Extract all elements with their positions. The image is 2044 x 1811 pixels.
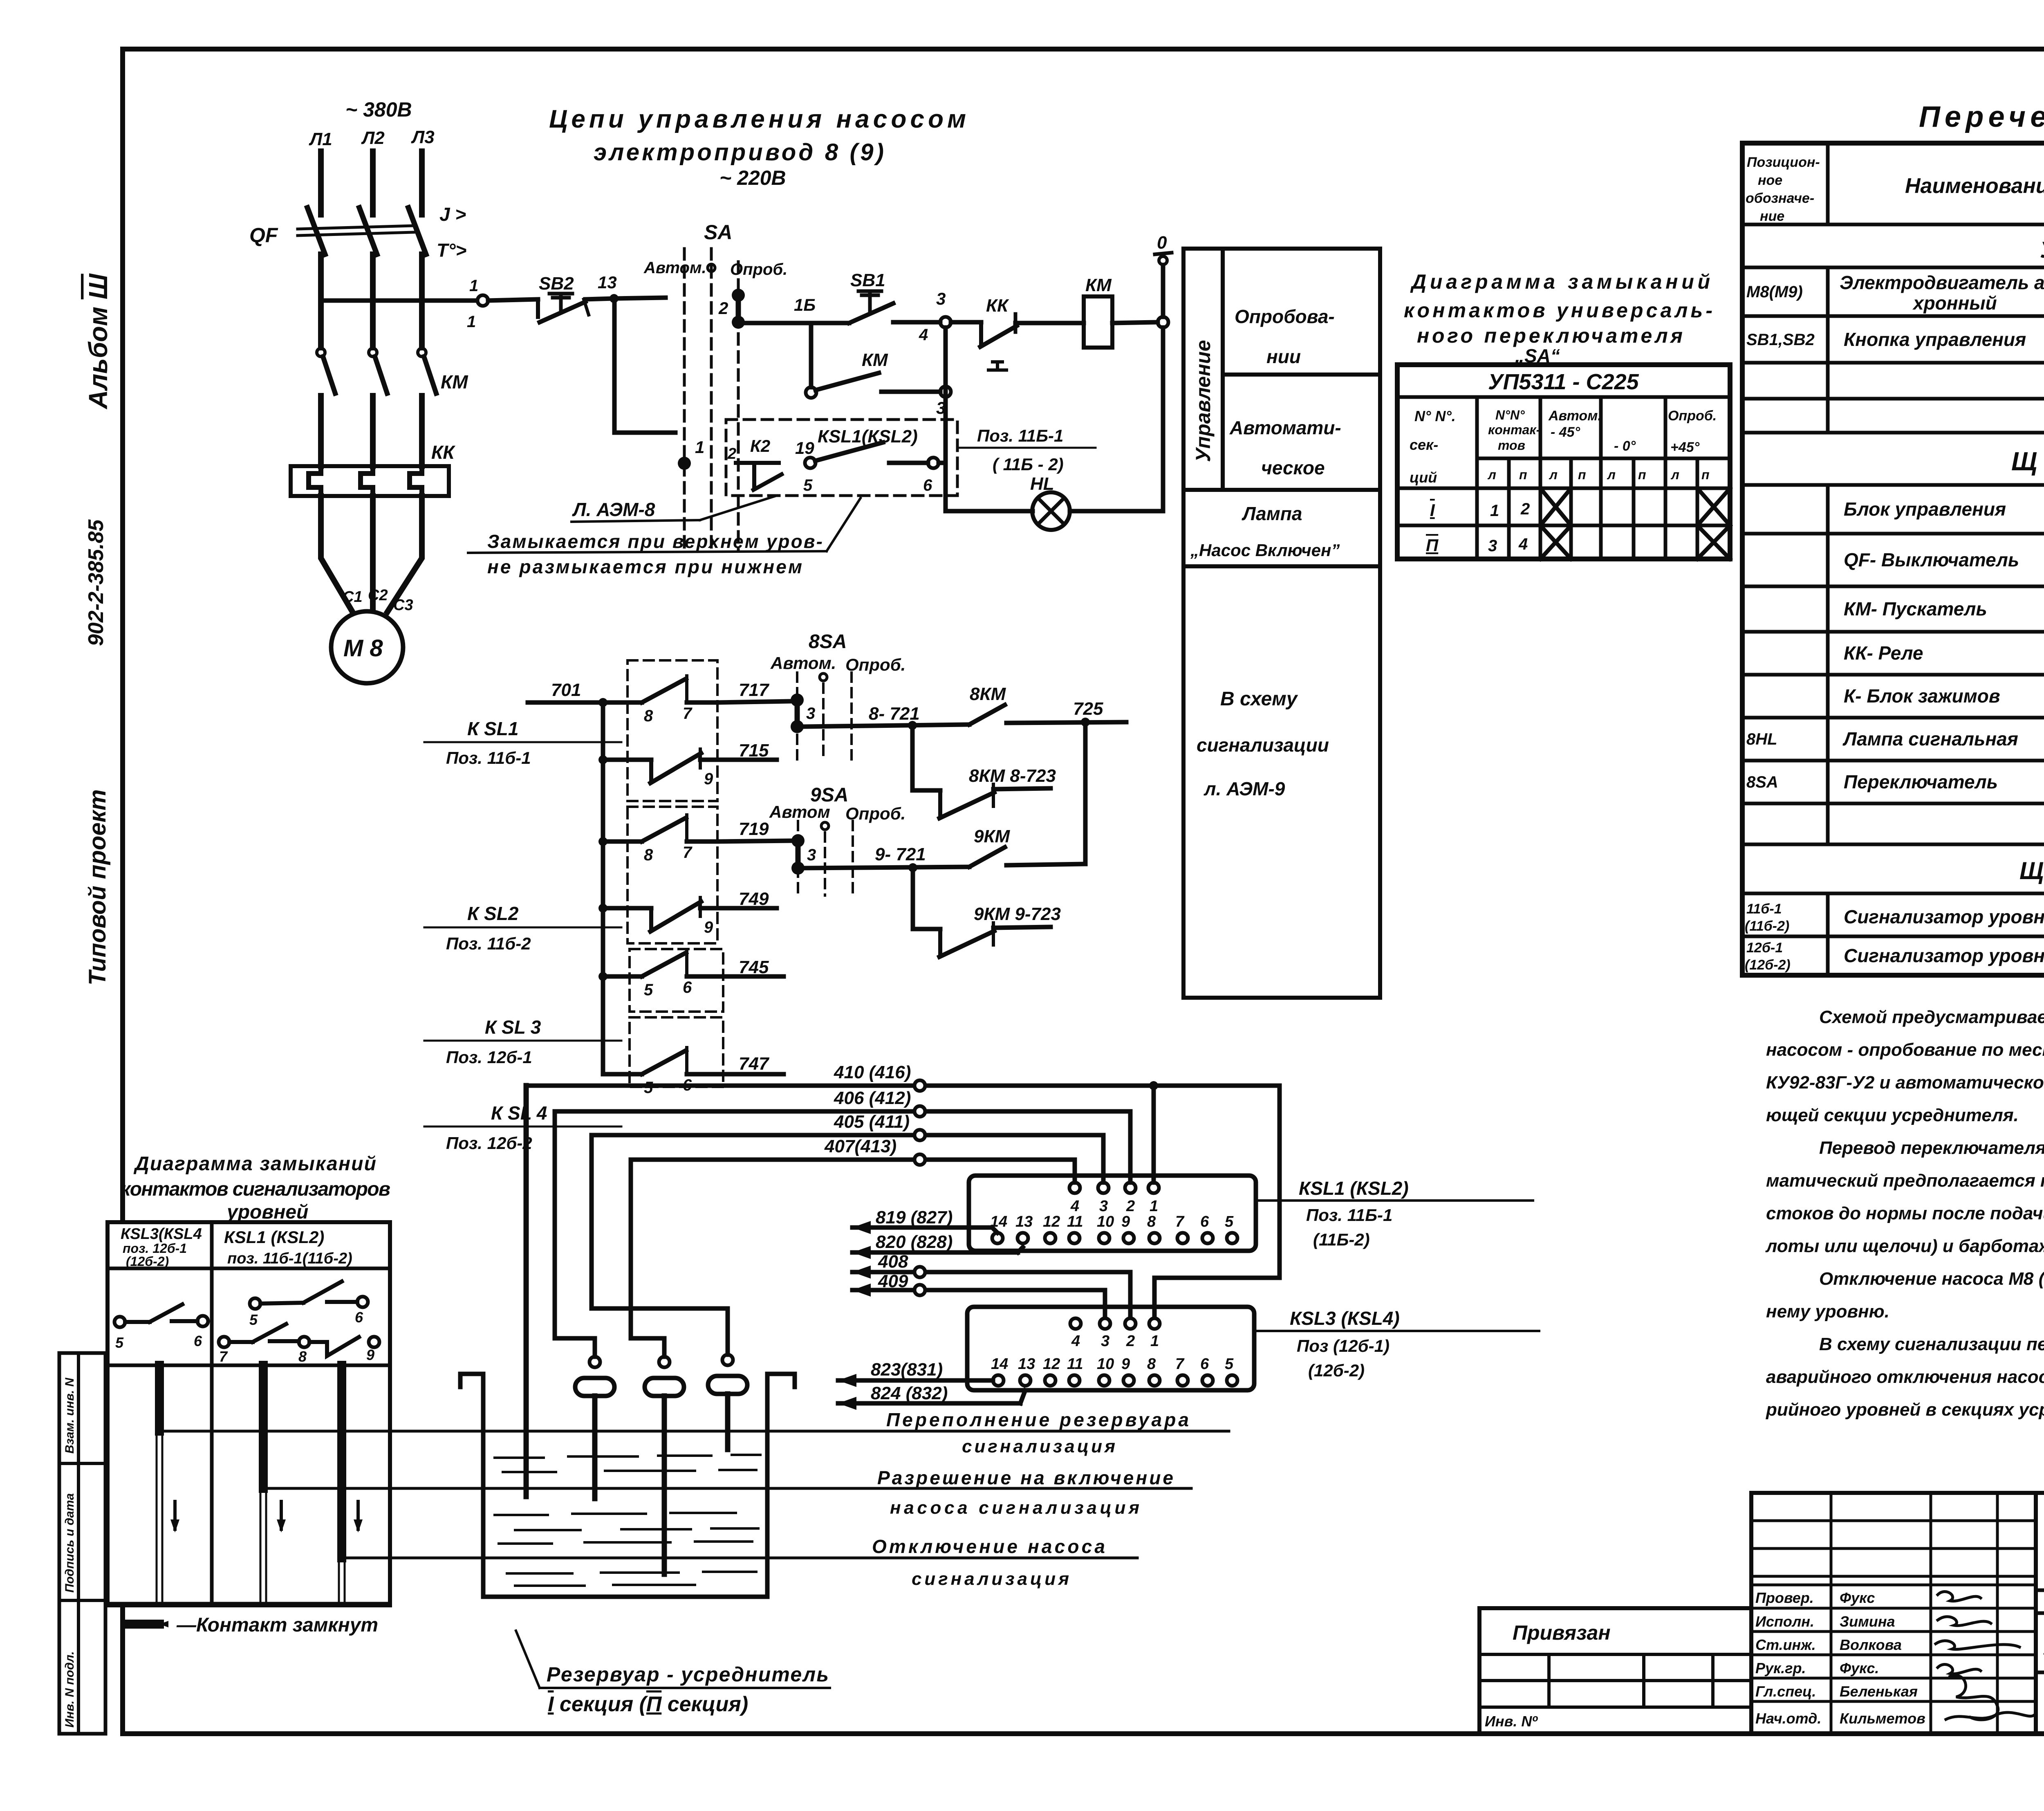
signature squiggles xyxy=(1936,1591,2034,1719)
svg-text:Щит КИП: Щит КИП xyxy=(2019,857,2044,884)
svg-text:КМ: КМ xyxy=(441,371,468,393)
svg-text:Цепи управления насосом: Цепи управления насосом xyxy=(549,105,966,133)
svg-text:9: 9 xyxy=(366,1346,374,1363)
svg-text:КУ92-83Г-У2 и автоматическое: КУ92-83Г-У2 и автоматическое по уровню в… xyxy=(1766,1073,2044,1093)
SA position labels xyxy=(643,259,787,278)
svg-text:К- Блок зажимов: К- Блок зажимов xyxy=(1844,685,2000,707)
net 408 wire xyxy=(852,1252,1130,1317)
wire 719 to 9SA xyxy=(717,841,792,842)
wire 745 stub xyxy=(723,974,784,979)
contactor coil KM xyxy=(1084,296,1112,348)
chart arrow 3 xyxy=(354,1501,363,1533)
svg-text:717: 717 xyxy=(739,680,770,700)
svg-text:9: 9 xyxy=(1121,1213,1130,1230)
svg-text:11б-1: 11б-1 xyxy=(1746,901,1782,917)
svg-text:8SА: 8SА xyxy=(1746,773,1778,791)
wire node3 vertical down to lamp rail xyxy=(944,328,948,511)
level 1 label: Переполнение резервуара / сигнализация xyxy=(886,1409,1189,1456)
symbol contact 7-8-9 KSL1 xyxy=(219,1324,379,1365)
junction dot 745 tap xyxy=(598,972,607,981)
svg-text:КК: КК xyxy=(986,296,1009,316)
svg-text:N°N°: N°N° xyxy=(1495,408,1525,422)
svg-text:п: п xyxy=(1519,467,1527,482)
svg-text:12: 12 xyxy=(1043,1355,1060,1373)
svg-text:М8(М9): М8(М9) xyxy=(1746,283,1803,301)
svg-text:Поз. 11Б-1: Поз. 11Б-1 xyxy=(977,426,1063,445)
svg-text:(12б-2): (12б-2) xyxy=(1745,957,1791,973)
list-of-elements table grid xyxy=(1742,143,2044,975)
svg-text:Подпись и дата: Подпись и дата xyxy=(63,1493,76,1593)
svg-text:408: 408 xyxy=(878,1252,908,1272)
svg-text:6: 6 xyxy=(355,1309,363,1326)
svg-text:4: 4 xyxy=(1071,1333,1080,1350)
svg-text:Блок управления: Блок управления xyxy=(1844,498,2006,520)
svg-text:410 (416): 410 (416) xyxy=(834,1062,911,1082)
svg-text:9- 721: 9- 721 xyxy=(875,844,926,864)
wire 715 stub xyxy=(717,758,777,762)
node 0 circle xyxy=(1158,317,1168,328)
KSL bus vertical xyxy=(601,702,605,1074)
9SA dashed line 2 xyxy=(824,833,826,895)
wire 1B to SB1 xyxy=(811,321,849,325)
svg-text:10: 10 xyxy=(1097,1355,1114,1373)
net 407 wire xyxy=(631,1136,1075,1183)
svg-text:13: 13 xyxy=(1015,1213,1033,1230)
net 819(827) wire with arrow xyxy=(852,1207,997,1234)
svg-text:3: 3 xyxy=(936,289,946,308)
svg-text:9: 9 xyxy=(704,918,713,936)
level 2 label: Разрешение на включение / насоса сигнализация xyxy=(877,1467,1173,1518)
SA table л/п sub-headers xyxy=(1487,467,1710,482)
svg-text:+45°: +45° xyxy=(1670,440,1700,455)
svg-text:матический предполагается по: матический предполагается после заполнен… xyxy=(1766,1171,2044,1191)
К блок зажимов row xyxy=(1844,680,2044,715)
svg-text:КSL1(КSL2): КSL1(КSL2) xyxy=(818,426,918,447)
svg-text:Кильметов: Кильметов xyxy=(1840,1710,1925,1727)
svg-text:НL: НL xyxy=(1030,474,1054,494)
label KSL3 Poz.12b-1 xyxy=(446,1017,541,1067)
wire SB2 to node 13 xyxy=(585,298,613,299)
КМ пускатель row xyxy=(1844,593,2044,628)
svg-text:8SА: 8SА xyxy=(809,631,847,653)
contact KM auxiliary (NO self-hold) xyxy=(806,350,888,398)
contact KSL3 5-6 (net 745) xyxy=(603,950,723,999)
wire node 0 up to terminal xyxy=(1161,265,1165,317)
svg-text:К2: К2 xyxy=(750,436,770,456)
signature rows text xyxy=(1755,1589,1925,1727)
control tap wire from phase 1 xyxy=(321,298,477,303)
svg-text:Фукс.: Фукс. xyxy=(1840,1660,1879,1676)
relay contact KK (NC) xyxy=(980,296,1017,370)
svg-text:Управление: Управление xyxy=(1192,340,1215,462)
svg-text:Инв. Nº: Инв. Nº xyxy=(1485,1713,1538,1730)
net 701 label xyxy=(551,680,581,700)
svg-text:701: 701 xyxy=(551,680,581,700)
svg-text:Л2: Л2 xyxy=(361,128,385,148)
svg-text:725: 725 xyxy=(1073,699,1103,719)
svg-text:л: л xyxy=(1607,467,1616,482)
svg-text:- 0°: - 0° xyxy=(1614,438,1636,454)
svg-text:7: 7 xyxy=(219,1348,228,1365)
svg-text:Автом.: Автом. xyxy=(643,259,706,277)
svg-text:Перевод переключателя 8SА (9: Перевод переключателя 8SА (9SА) в режим … xyxy=(1819,1138,2044,1158)
svg-text:Наименование: Наименование xyxy=(1905,174,2044,198)
svg-text:Поз. 12б-1: Поз. 12б-1 xyxy=(446,1048,532,1067)
svg-text:I секция (П секция): I секция (П секция) xyxy=(548,1692,748,1716)
svg-text:Переключатель: Переключатель xyxy=(1844,771,1998,792)
svg-text:1Б: 1Б xyxy=(794,295,816,314)
9SA pivot circle xyxy=(821,822,829,830)
net 824(832) wire with arrow xyxy=(838,1383,1025,1410)
contactor KM pole 3 xyxy=(418,348,436,393)
junction dot 9-721 xyxy=(908,863,917,872)
svg-text:С2: С2 xyxy=(368,587,388,604)
svg-text:( 11Б - 2): ( 11Б - 2) xyxy=(993,455,1064,474)
svg-text:(12б-2): (12б-2) xyxy=(126,1254,169,1269)
label KSL1(KSL2) xyxy=(818,426,918,447)
svg-text:л: л xyxy=(1670,467,1679,482)
contactor KM pole 1 xyxy=(317,348,335,393)
svg-text:В схему: В схему xyxy=(1220,688,1298,710)
lamp HL circuit rail xyxy=(946,509,1033,514)
pushbutton SB2 (NC) xyxy=(538,274,589,322)
svg-text:824 (832): 824 (832) xyxy=(871,1383,948,1403)
list-of-elements title: Перечень элементов xyxy=(1919,101,2044,133)
motor M8 circle xyxy=(331,611,403,683)
title line 3: ~220В xyxy=(719,166,786,189)
svg-text:сигнализации: сигнализации xyxy=(1197,734,1329,756)
float switch 2 xyxy=(645,1357,684,1574)
svg-text:1: 1 xyxy=(1150,1333,1159,1350)
wire phase L3 stub xyxy=(419,151,425,215)
svg-text:SА: SА xyxy=(704,221,732,244)
svg-text:Поз (12б-1): Поз (12б-1) xyxy=(1297,1336,1390,1355)
level contacts diagram title xyxy=(121,1153,390,1223)
legend row top xyxy=(108,1602,390,1606)
descriptive paragraph text xyxy=(1765,1007,2044,1420)
svg-text:Сигнализатор уровня: Сигнализатор уровня xyxy=(1844,945,2044,966)
leader and label KSL3 (KSL4) Poz (12b-1)(12b-2) xyxy=(1290,1308,1400,1380)
svg-text:К SL1: К SL1 xyxy=(467,718,518,739)
svg-text:Сигнализатор уровня: Сигнализатор уровня xyxy=(1844,906,2044,927)
table header texts xyxy=(1746,155,2044,224)
SA table col headers xyxy=(1410,408,1717,486)
svg-text:Волкова: Волкова xyxy=(1840,1636,1902,1653)
switch 8SA labels xyxy=(770,631,905,674)
svg-text:КК: КК xyxy=(431,442,455,463)
svg-text:уровней: уровней xyxy=(226,1201,308,1223)
labels C1 C2 C3 xyxy=(343,587,413,614)
header cell KSL1 text xyxy=(224,1228,352,1267)
svg-text:5: 5 xyxy=(803,476,813,494)
svg-text:Ст.инж.: Ст.инж. xyxy=(1755,1636,1816,1653)
chart bar KSL1a (closed above level2) xyxy=(260,1365,266,1604)
wire to motor C2 xyxy=(370,496,376,610)
svg-text:11: 11 xyxy=(1067,1213,1083,1230)
net 405 wire xyxy=(592,1112,1103,1183)
wire SA to node 1B xyxy=(745,321,811,325)
chart arrow 2 xyxy=(277,1501,286,1533)
svg-text:контактов сигнализаторов: контактов сигнализаторов xyxy=(121,1178,390,1200)
node 1 circle xyxy=(477,295,488,306)
8SA contact 3 (closed) xyxy=(791,693,815,733)
svg-text:8: 8 xyxy=(644,707,653,725)
svg-text:Диаграмма замыканий: Диаграмма замыканий xyxy=(133,1153,376,1175)
left margin rotated text: Типовой проект xyxy=(84,789,111,985)
float switch 1 xyxy=(575,1357,614,1499)
left margin rotated text: 902-2-385.85 xyxy=(84,519,108,646)
svg-text:8КМ 8-723: 8КМ 8-723 xyxy=(969,766,1056,786)
svg-text:поз. 12б-1: поз. 12б-1 xyxy=(123,1241,187,1256)
svg-text:10: 10 xyxy=(1097,1213,1114,1230)
svg-text:л: л xyxy=(1549,467,1558,482)
svg-text:5: 5 xyxy=(1225,1213,1234,1230)
cell text Опробовании xyxy=(1235,306,1335,367)
svg-text:КSL1 (КSL2): КSL1 (КSL2) xyxy=(224,1228,324,1247)
wire KK to KM coil xyxy=(1015,321,1084,325)
node 1B xyxy=(794,295,816,314)
wire to motor C3 xyxy=(388,496,422,612)
wire 9-721 rail xyxy=(805,867,969,868)
svg-text:14: 14 xyxy=(991,1355,1008,1373)
svg-text:9: 9 xyxy=(704,770,713,788)
svg-text:719: 719 xyxy=(739,819,769,839)
breaker QF pole 1 xyxy=(307,208,325,254)
title: Цепи управления насосом xyxy=(549,105,966,133)
label KSL4 Poz.12b-2 xyxy=(446,1102,547,1153)
svg-text:контак-: контак- xyxy=(1488,422,1540,437)
svg-text:(11Б-2): (11Б-2) xyxy=(1313,1230,1370,1249)
tank right outer tick xyxy=(793,1374,797,1387)
svg-text:9КМ: 9КМ xyxy=(974,826,1011,846)
contact KSL2 9 (net 749) xyxy=(603,898,717,936)
svg-text:Л1: Л1 xyxy=(309,129,332,149)
svg-text:ное: ное xyxy=(1758,173,1782,188)
svg-text:В схему сигнализации переда: В схему сигнализации передаются сигналы xyxy=(1819,1334,2044,1354)
pushbutton SB1 (NO) xyxy=(849,270,893,323)
svg-text:Опроб.: Опроб. xyxy=(1668,408,1717,424)
SA table header УП5311-С225 xyxy=(1488,370,1639,394)
svg-text:SВ2: SВ2 xyxy=(539,274,574,294)
переключатель 8SA row xyxy=(1746,762,2044,803)
svg-text:5: 5 xyxy=(644,981,653,999)
кнопка SB1,SB2 row xyxy=(1746,323,2044,359)
svg-text:3: 3 xyxy=(1488,537,1497,555)
svg-text:Исполн.: Исполн. xyxy=(1755,1613,1814,1630)
title block: Привязан table xyxy=(1479,1608,1751,1734)
svg-text:Автом: Автом xyxy=(769,802,830,821)
junction dot 725 xyxy=(1081,718,1090,727)
svg-text:КК- Реле: КК- Реле xyxy=(1844,642,1923,664)
svg-text:747: 747 xyxy=(739,1054,770,1074)
svg-text:Резервуар - усреднитель: Резервуар - усреднитель xyxy=(547,1663,829,1686)
svg-text:405 (411): 405 (411) xyxy=(834,1112,910,1132)
label Poz.11b-1 (11b-2) xyxy=(977,426,1064,474)
svg-text:Взам. инв. N: Взам. инв. N xyxy=(63,1377,76,1454)
svg-text:ческое: ческое xyxy=(1261,457,1325,478)
wire phase 1 mid xyxy=(318,254,324,348)
svg-text:8: 8 xyxy=(644,846,653,864)
8SA dashed line 2 xyxy=(822,684,825,761)
svg-text:6: 6 xyxy=(194,1333,202,1349)
svg-text:Поз. 11б-2: Поз. 11б-2 xyxy=(446,934,531,953)
dashed box KSL4 contact xyxy=(630,1017,723,1087)
svg-text:КSL1 (КSL2): КSL1 (КSL2) xyxy=(1299,1178,1409,1199)
svg-text:Опроб.: Опроб. xyxy=(845,804,905,823)
KM label power xyxy=(441,371,468,393)
contact 9KM NC (net 9-723) xyxy=(939,904,1061,957)
svg-text:Опроб.: Опроб. xyxy=(730,260,787,278)
svg-text:Отключение насоса М8 (М9) п: Отключение насоса М8 (М9) происходит по … xyxy=(1819,1269,2044,1289)
svg-text:аварийного отключения насосо: аварийного отключения насосов, верхнего … xyxy=(1766,1367,2044,1387)
tank left outer tick xyxy=(458,1374,463,1387)
level 3 label: Отключение насоса / сигнализация xyxy=(872,1536,1105,1589)
wire 725 vertical down xyxy=(1083,722,1088,864)
symbol contact 5-6 KSL1 xyxy=(249,1281,368,1328)
svg-text:поз. 11б-1(11б-2): поз. 11б-1(11б-2) xyxy=(227,1250,352,1267)
header row bottom xyxy=(108,1267,390,1270)
svg-text:стоков до нормы после пода: стоков до нормы после подачи насосом реа… xyxy=(1766,1203,2044,1223)
chart bar KSL1b (closed above level3) xyxy=(339,1365,345,1604)
svg-text:Инв. N подл.: Инв. N подл. xyxy=(63,1651,76,1728)
9SA dashed line 1 xyxy=(797,821,799,895)
svg-text:3: 3 xyxy=(807,846,816,864)
tank water hatching xyxy=(495,1455,760,1586)
contactor KM pole 2 xyxy=(369,348,387,393)
svg-text:ного переключателя: ного переключателя xyxy=(1417,324,1683,347)
svg-text:п: п xyxy=(1578,467,1586,482)
svg-text:SВ1,SВ2: SВ1,SВ2 xyxy=(1746,331,1815,349)
note: Замыкается при верхнем уров- xyxy=(487,531,823,552)
svg-text:2: 2 xyxy=(1126,1198,1135,1215)
svg-text:п: п xyxy=(1701,467,1710,482)
net label 725 xyxy=(1073,699,1103,719)
svg-text:406 (412): 406 (412) xyxy=(834,1088,911,1108)
svg-text:л. АЭМ-9: л. АЭМ-9 xyxy=(1204,778,1285,799)
svg-text:2: 2 xyxy=(1520,500,1530,518)
wire phase L1 stub xyxy=(318,151,324,215)
9SA dashed line 3 xyxy=(852,821,854,895)
8SA pivot circle xyxy=(820,673,827,681)
wire branch 8-721 down xyxy=(912,725,940,790)
wire rail node1 to SB2 xyxy=(488,299,538,301)
svg-text:Привязан: Привязан xyxy=(1513,1621,1611,1644)
svg-text:13: 13 xyxy=(598,273,617,292)
switch SA dashed line (Autom) xyxy=(683,249,686,550)
svg-text:Электродвигатель асин-: Электродвигатель асин- xyxy=(1840,272,2044,293)
svg-text:12б-1: 12б-1 xyxy=(1746,940,1783,956)
junction dot 8-721 xyxy=(908,721,917,730)
svg-text:0: 0 xyxy=(1157,233,1167,253)
level line 3 (cutoff) xyxy=(343,1557,1137,1560)
tank left wall xyxy=(460,1374,483,1597)
svg-text:1: 1 xyxy=(695,438,704,457)
svg-text:Лампа: Лампа xyxy=(1242,503,1302,524)
svg-text:9КМ 9-723: 9КМ 9-723 xyxy=(974,904,1061,924)
contact K2 (NC in dashed box) xyxy=(727,436,782,490)
control-destination box (Upravlenie) xyxy=(1183,249,1380,998)
thermal relay KK block xyxy=(291,466,449,496)
svg-text:Опроб.: Опроб. xyxy=(845,655,905,674)
svg-text:7: 7 xyxy=(683,844,693,862)
circle 6 in dashed box xyxy=(889,458,939,494)
tank label: I секция (II секция) xyxy=(548,1692,748,1716)
dashed box KSL2 contacts xyxy=(628,807,717,943)
svg-text:19: 19 xyxy=(795,438,814,458)
svg-text:8: 8 xyxy=(298,1348,307,1365)
contact 9KM NO xyxy=(969,826,1011,867)
level line 2 inside chart xyxy=(263,1487,390,1490)
probe wire from 410 into tank xyxy=(524,1086,529,1497)
wire 405 down to float 3 xyxy=(592,1135,728,1355)
sensor terminal block KSL3(KSL4) xyxy=(967,1307,1254,1390)
svg-text:Рук.гр.: Рук.гр. xyxy=(1755,1660,1806,1676)
title block: main right part frame xyxy=(2036,1493,2044,1734)
svg-text:Поз. 11б-1: Поз. 11б-1 xyxy=(446,748,531,767)
svg-text:QF: QF xyxy=(249,224,278,247)
svg-text:К SL 3: К SL 3 xyxy=(485,1017,541,1038)
svg-text:4: 4 xyxy=(1518,535,1528,553)
svg-text:У механизма: У механизма xyxy=(2040,237,2044,263)
symbols row bottom xyxy=(108,1364,390,1367)
svg-text:823(831): 823(831) xyxy=(871,1360,943,1380)
svg-text:обозначе-: обозначе- xyxy=(1746,191,1814,206)
svg-text:Т°>: Т°> xyxy=(437,240,466,261)
wire SB1 to node 3 xyxy=(893,320,940,325)
wire phase L2 stub xyxy=(370,151,376,215)
wire node3 to KK contact xyxy=(951,320,981,325)
node 3a circle xyxy=(940,386,951,397)
svg-text:К SL 4: К SL 4 xyxy=(491,1102,547,1124)
dashed box KSL1 level switch (sheet AEM-8) xyxy=(726,420,957,496)
stamp table bottom-left outside frame xyxy=(59,1353,105,1734)
8SA dashed line 3 xyxy=(850,673,853,761)
wire phase 3 mid xyxy=(419,254,425,348)
svg-text:6: 6 xyxy=(923,476,932,494)
label KSL1 Poz.11b-1 xyxy=(446,718,531,767)
leader and label KSL1 (KSL2) Poz 11b-1 (11b-2) xyxy=(1299,1178,1409,1249)
svg-text:Поз. 12б-2: Поз. 12б-2 xyxy=(446,1133,532,1153)
svg-text:(11б-2): (11б-2) xyxy=(1745,918,1789,934)
net label 9-721 xyxy=(875,844,926,864)
stamp label: Взам. инв. N xyxy=(63,1377,76,1454)
QF trip bar xyxy=(298,226,414,236)
svg-text:2: 2 xyxy=(727,445,736,462)
svg-text:902-2-385.85: 902-2-385.85 xyxy=(84,519,108,646)
X mark row II Autom col xyxy=(1540,525,1571,559)
svg-text:Позицион-: Позицион- xyxy=(1747,155,1820,170)
svg-text:820 (828): 820 (828) xyxy=(876,1232,953,1252)
level line 1 inside chart xyxy=(159,1430,390,1433)
svg-text:QF- Выключатель: QF- Выключатель xyxy=(1844,549,2019,570)
cell text Автоматическое xyxy=(1229,417,1341,478)
svg-text:Нач.отд.: Нач.отд. xyxy=(1755,1710,1821,1727)
dashed box KSL3 contact xyxy=(630,949,723,1012)
лампа 8HL row xyxy=(1746,723,2044,757)
svg-text:- 45°: - 45° xyxy=(1551,424,1580,440)
svg-text:~ 380В: ~ 380В xyxy=(345,98,412,121)
сигнализатор 11б row xyxy=(1745,901,2044,934)
svg-text:Схемой предусматривается два: Схемой предусматривается два вида управл… xyxy=(1819,1007,2044,1027)
symbol contact 5-6 KSL3 xyxy=(114,1304,208,1351)
svg-text:КМ: КМ xyxy=(1085,275,1112,295)
svg-text:КМ: КМ xyxy=(862,350,888,370)
left margin rotated text: Альбом III xyxy=(83,273,113,410)
contact KSL2 8-7 (net 719) xyxy=(603,815,717,864)
wire node13 to SA xyxy=(614,298,666,298)
wire 9KM to 725 vertical xyxy=(1006,864,1085,865)
tank right wall xyxy=(767,1374,795,1597)
